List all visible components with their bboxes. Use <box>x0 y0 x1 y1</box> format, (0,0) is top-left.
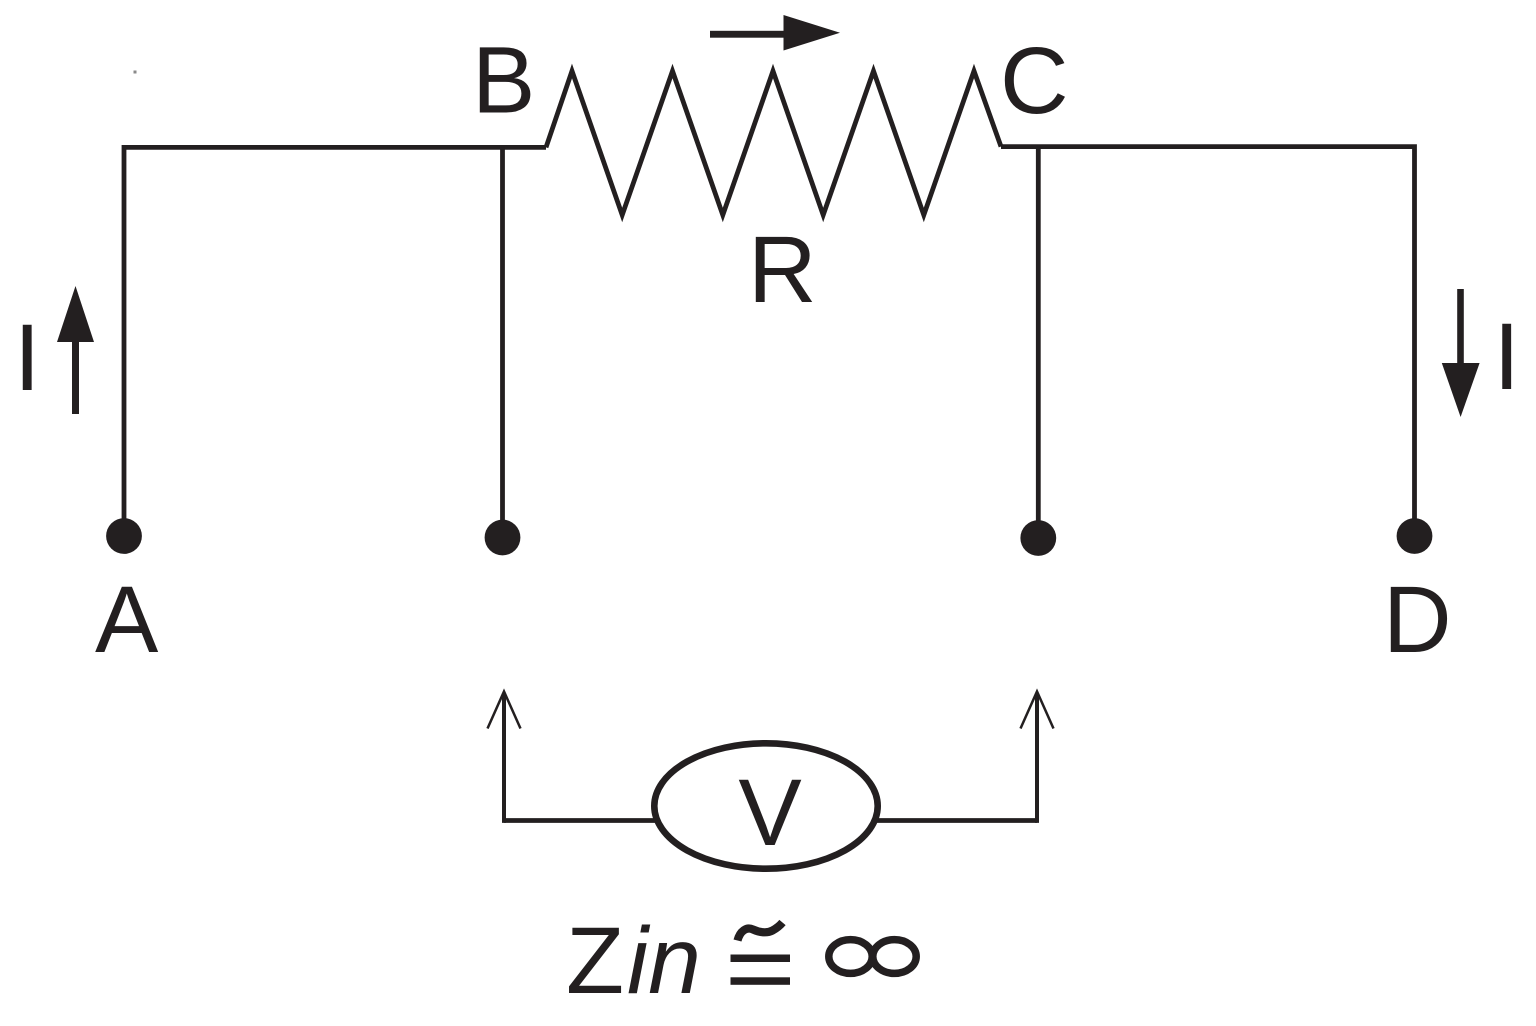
svg-text:C: C <box>1000 28 1069 134</box>
svg-text:R: R <box>748 217 817 323</box>
svg-text:B: B <box>472 28 535 134</box>
svg-text:I: I <box>1494 304 1520 410</box>
svg-text:D: D <box>1383 567 1452 673</box>
svg-text:in: in <box>627 908 701 1014</box>
svg-text:A: A <box>95 567 159 673</box>
svg-text:V: V <box>738 760 801 866</box>
svg-text:Z: Z <box>566 908 624 1014</box>
svg-text:I: I <box>14 305 40 411</box>
